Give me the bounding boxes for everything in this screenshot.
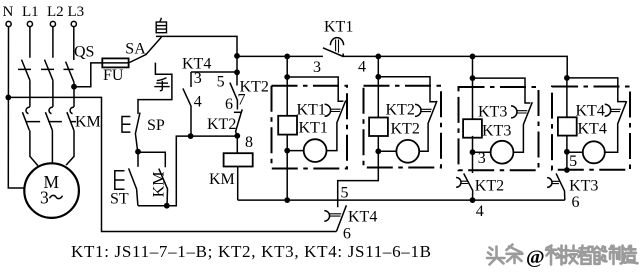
svg-text:KT2: KT2 xyxy=(391,121,420,138)
svg-text:3: 3 xyxy=(194,70,202,87)
svg-text:KT2: KT2 xyxy=(475,178,504,195)
svg-text:KT4: KT4 xyxy=(348,209,377,226)
svg-text:6: 6 xyxy=(572,194,580,211)
svg-text:KM: KM xyxy=(75,114,101,131)
svg-text:KT2: KT2 xyxy=(207,116,236,133)
svg-text:N: N xyxy=(3,4,14,20)
svg-text:KT3: KT3 xyxy=(482,123,511,140)
svg-text:KT4: KT4 xyxy=(576,103,605,120)
svg-text:7: 7 xyxy=(238,92,246,109)
svg-text:3: 3 xyxy=(478,150,486,167)
svg-text:5: 5 xyxy=(217,74,225,91)
svg-text:ST: ST xyxy=(110,191,129,208)
svg-text:4: 4 xyxy=(358,59,366,76)
svg-text:5: 5 xyxy=(341,185,349,202)
svg-text:L3: L3 xyxy=(68,4,85,20)
svg-text:L1: L1 xyxy=(22,4,39,20)
svg-text:3: 3 xyxy=(313,59,321,76)
svg-text:SP: SP xyxy=(147,117,165,134)
svg-text:3: 3 xyxy=(40,188,49,208)
svg-text:KT1: KT1 xyxy=(324,19,353,36)
svg-text:6: 6 xyxy=(343,226,351,243)
svg-text:SA: SA xyxy=(125,41,146,58)
svg-text:KM: KM xyxy=(150,171,167,197)
svg-text:L2: L2 xyxy=(47,4,64,20)
svg-text:FU: FU xyxy=(103,67,124,84)
svg-text:4: 4 xyxy=(476,203,484,220)
svg-text:KT4: KT4 xyxy=(578,121,607,138)
svg-text:6: 6 xyxy=(225,96,233,113)
svg-text:KT1: KT1 xyxy=(297,102,326,119)
svg-text:KT1: KT1 xyxy=(299,120,328,137)
svg-text:KT1: JS11–7–1–B; KT2, KT3, KT: KT1: JS11–7–1–B; KT2, KT3, KT4: JS11–6–1… xyxy=(71,242,431,261)
svg-text:KT2: KT2 xyxy=(386,102,415,119)
svg-text:QS: QS xyxy=(74,44,94,61)
svg-text:8: 8 xyxy=(245,134,253,151)
svg-text:@: @ xyxy=(526,247,545,269)
svg-text:KT3: KT3 xyxy=(569,178,598,195)
svg-text:KM: KM xyxy=(209,171,235,188)
svg-text:4: 4 xyxy=(194,94,202,111)
svg-text:5: 5 xyxy=(569,153,577,170)
svg-text:KT3: KT3 xyxy=(478,104,507,121)
